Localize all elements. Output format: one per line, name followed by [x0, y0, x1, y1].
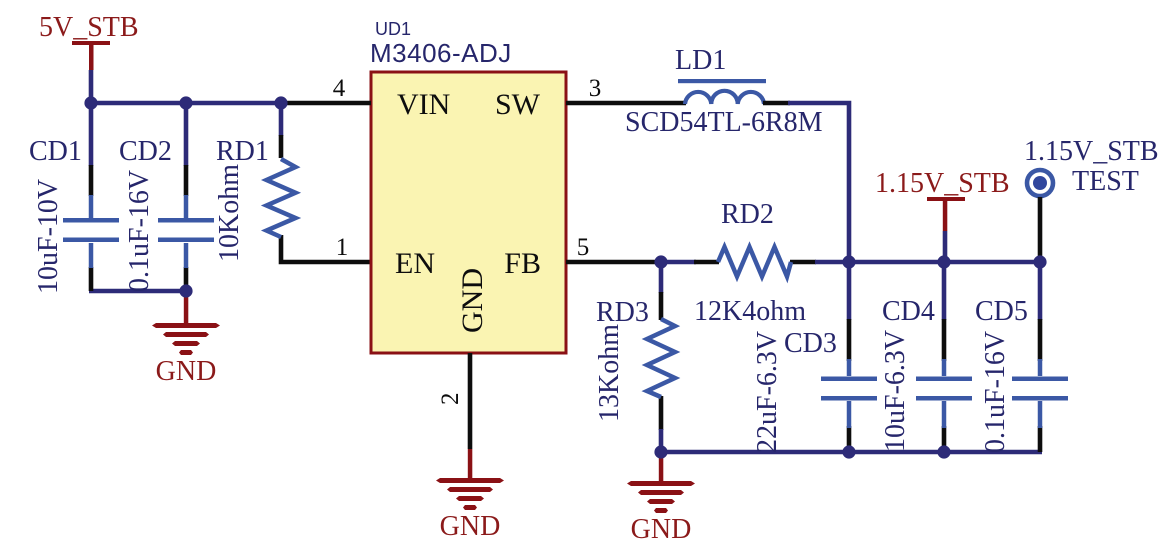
- wire 5V_STB to bus: [89, 70, 94, 103]
- power port 5V_STB: [39, 12, 139, 70]
- wire bottom-left bus: [89, 289, 188, 294]
- svg-text:2: 2: [437, 393, 464, 406]
- junction (1040,262): [1033, 255, 1046, 268]
- wire FB left: [659, 260, 696, 265]
- junction (661,452): [654, 445, 667, 458]
- svg-text:22uF-6.3V: 22uF-6.3V: [752, 331, 783, 453]
- junction (944,452): [937, 445, 950, 458]
- svg-text:CD2: CD2: [119, 136, 172, 167]
- svg-text:5: 5: [577, 234, 590, 261]
- svg-text:13Kohm: 13Kohm: [594, 324, 625, 422]
- svg-text:10uF-6.3V: 10uF-6.3V: [880, 330, 911, 452]
- svg-text:1: 1: [336, 234, 349, 261]
- ground GND left: [152, 294, 220, 387]
- power port 1.15V_STB: [875, 168, 1010, 231]
- op-amp UD1 M3406-ADJ body: [371, 72, 566, 353]
- ground GND under UD1: [436, 449, 504, 542]
- svg-text:CD4: CD4: [882, 296, 935, 327]
- svg-text:RD2: RD2: [721, 199, 774, 230]
- svg-text:GND: GND: [631, 514, 692, 545]
- svg-text:4: 4: [333, 75, 346, 102]
- svg-text:5V_STB: 5V_STB: [39, 12, 139, 43]
- wire bottom bus: [661, 450, 1042, 455]
- resistor RD3: [647, 262, 675, 452]
- capacitor CD2: [158, 165, 214, 291]
- svg-text:CD5: CD5: [975, 296, 1028, 327]
- junction (944,262): [937, 255, 950, 268]
- svg-text:GND: GND: [440, 511, 501, 542]
- svg-text:0.1uF-16V: 0.1uF-16V: [124, 170, 155, 292]
- svg-text:0.1uF-16V: 0.1uF-16V: [980, 331, 1011, 453]
- pin 5 FB wire: [566, 260, 659, 265]
- wire CD1 top: [89, 101, 94, 166]
- svg-text:LD1: LD1: [675, 45, 726, 76]
- svg-text:GND: GND: [156, 356, 217, 387]
- wire SW output to node: [788, 103, 849, 320]
- inductor LD1: [678, 79, 790, 104]
- wire CD2 top: [184, 101, 189, 166]
- svg-text:M3406-ADJ: M3406-ADJ: [370, 38, 512, 68]
- test point 1.15V_STB TEST: [1027, 170, 1053, 262]
- svg-text:FB: FB: [504, 247, 541, 280]
- pin 2 GND wire: [468, 353, 473, 449]
- svg-text:GND: GND: [456, 268, 489, 333]
- svg-text:10uF-10V: 10uF-10V: [33, 179, 64, 294]
- svg-text:10Kohm: 10Kohm: [214, 164, 245, 262]
- svg-text:RD3: RD3: [596, 297, 649, 328]
- resistor RD1: [267, 135, 372, 262]
- svg-text:SCD54TL-6R8M: SCD54TL-6R8M: [625, 107, 823, 138]
- resistor RD2: [694, 247, 816, 277]
- capacitor CD5: [1012, 262, 1068, 452]
- svg-text:EN: EN: [395, 247, 435, 280]
- svg-text:UD1: UD1: [375, 19, 411, 39]
- svg-text:VIN: VIN: [397, 88, 450, 121]
- svg-text:1.15V_STB: 1.15V_STB: [1024, 136, 1159, 167]
- svg-text:3: 3: [589, 75, 602, 102]
- wire top bus 5V_STB: [91, 101, 283, 106]
- junction (849,452): [842, 445, 855, 458]
- wire FB node to output node: [815, 260, 1040, 265]
- wire RD1 top: [279, 101, 284, 136]
- junction (186,291): [179, 284, 192, 297]
- junction (661,262): [654, 255, 667, 268]
- svg-text:SW: SW: [495, 88, 541, 121]
- junction (849,262): [842, 255, 855, 268]
- svg-text:TEST: TEST: [1072, 166, 1139, 197]
- capacitor CD4: [916, 262, 972, 452]
- pin 3 SW wire: [566, 101, 686, 106]
- svg-text:CD1: CD1: [29, 136, 82, 167]
- capacitor CD3: [821, 319, 877, 452]
- capacitor CD1: [63, 165, 119, 291]
- svg-text:12K4ohm: 12K4ohm: [694, 296, 806, 327]
- junction (91,103): [84, 96, 97, 109]
- pin 4 VIN wire: [285, 101, 371, 106]
- svg-text:1.15V_STB: 1.15V_STB: [875, 168, 1010, 199]
- wire 1.15V_STB stub: [943, 231, 948, 262]
- ground GND bottom middle: [627, 452, 695, 545]
- svg-text:RD1: RD1: [216, 136, 269, 167]
- junction (186,103): [179, 96, 192, 109]
- svg-text:CD3: CD3: [784, 328, 837, 359]
- junction (281,103): [274, 96, 287, 109]
